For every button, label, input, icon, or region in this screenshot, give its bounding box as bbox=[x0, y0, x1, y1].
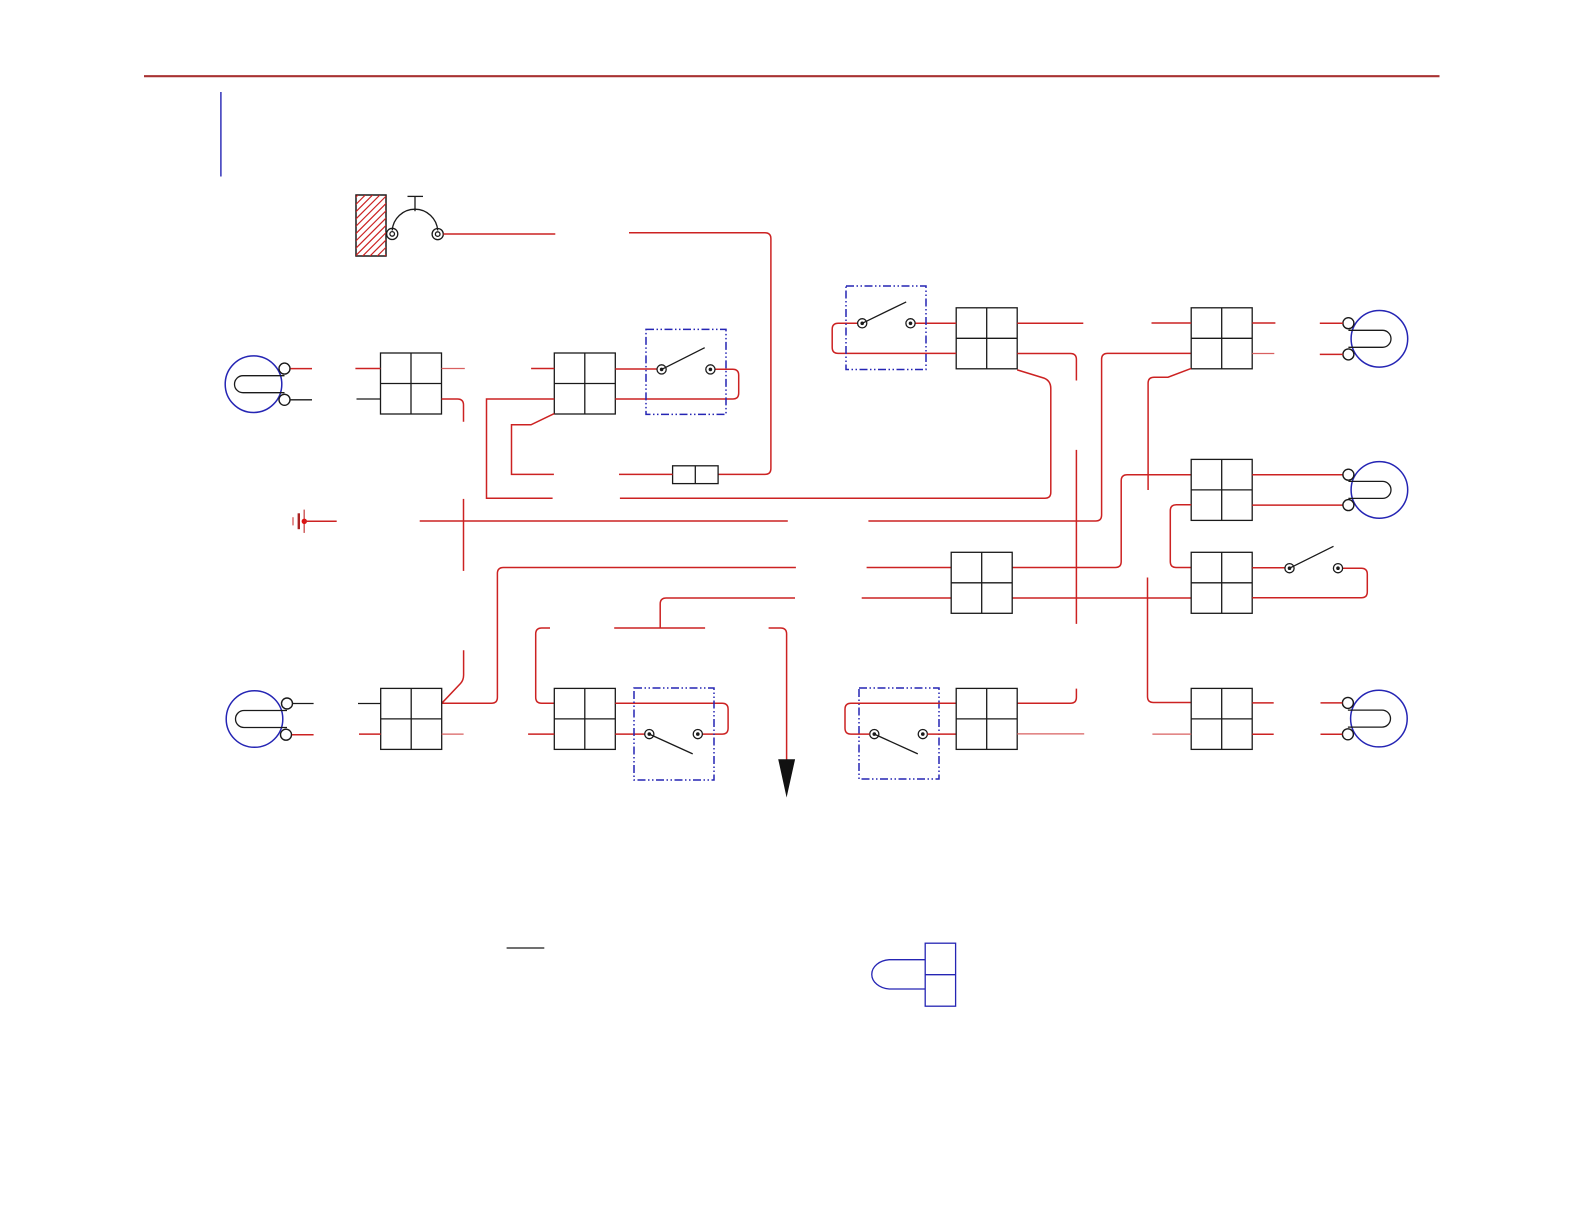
wire: K1 output stub bbox=[442, 368, 465, 370]
wire: S4 wrap loop to K3 lower pin bbox=[832, 323, 956, 353]
border tick (blue vertical line) bbox=[220, 92, 222, 177]
wire: bus D stub down to K9 bbox=[536, 628, 555, 703]
wire: K5 lower pin to K6 upper pin bbox=[1170, 505, 1191, 568]
wire: Kb2 lower-right stub bbox=[1017, 733, 1084, 735]
wire: K1 ground stub (black) bbox=[357, 398, 381, 400]
wire: horn output bbox=[443, 233, 555, 235]
wire: S3 wrap loop to Kb2 upper pin bbox=[845, 703, 956, 734]
wire: K8 lower-right stub bbox=[442, 733, 464, 735]
wire: K7 upper-right stub bbox=[1252, 702, 1274, 704]
relay K8 bbox=[381, 688, 442, 749]
wire: bus B mid segment bbox=[867, 567, 952, 569]
relay Kc (center) bbox=[951, 552, 1012, 613]
wire: K3 lower output corner down bbox=[1017, 354, 1076, 381]
wire: bus C right segment to K6 bbox=[1012, 597, 1191, 599]
wire: lamp E4 lower lead bbox=[292, 734, 314, 736]
wire: K8 upper-left stub (black) bbox=[358, 703, 381, 705]
switch S5 bbox=[1285, 546, 1343, 573]
wire: mid riser segment bbox=[1075, 450, 1077, 624]
wire: S3 to Kb2 lower pin bbox=[927, 733, 956, 735]
wire: K8 lower-left stub bbox=[359, 733, 381, 735]
wire: bus D to arrow bbox=[769, 628, 787, 760]
wire: S5 return loop to K6 bbox=[1252, 568, 1367, 598]
wire: K8 riser diagonal bbox=[442, 650, 464, 703]
wire: K4 lower output stub bbox=[1252, 353, 1274, 355]
wire: riser to battery bus bbox=[463, 499, 465, 571]
wire: K9 upper loop to S2 bbox=[615, 703, 728, 734]
horn H1 bbox=[387, 196, 444, 239]
wire: main bus B left (to K8) bbox=[442, 568, 796, 704]
wire: K4 coil stub bbox=[1152, 322, 1192, 324]
wire: horn feed from fuse (corner loop) bbox=[629, 233, 771, 475]
wire: K2 lower-left branch bbox=[487, 399, 555, 498]
wire: K6 to switch S5 bbox=[1252, 567, 1285, 569]
relay K7 bbox=[1191, 688, 1252, 749]
wire: K3 upper output stub bbox=[1017, 322, 1083, 324]
wire: bus B right segment to K5 bbox=[1012, 475, 1191, 568]
wire: lamp E2 upper stub bbox=[1320, 322, 1343, 324]
wire: K1 coil feed stub bbox=[355, 368, 380, 370]
wire: K5 to lamp E3 lower bbox=[1252, 504, 1343, 506]
wire: lamp E5 lower stub bbox=[1321, 733, 1343, 735]
wire: riser to Kb2 bbox=[1017, 689, 1076, 704]
wire: bus C mid segment bbox=[862, 597, 952, 599]
lamp E3 bbox=[1343, 462, 1408, 519]
wire: bus C left segment with riser bbox=[660, 598, 795, 628]
battery G1 bbox=[293, 510, 337, 533]
indicator lamp E6 bbox=[872, 943, 956, 1006]
lamp E2 bbox=[1343, 311, 1408, 368]
lamp E1 bbox=[225, 356, 290, 413]
wire: battery bus left segment bbox=[420, 520, 788, 522]
ground reference line (black) bbox=[507, 947, 545, 949]
wire: K9 lower-left stub bbox=[528, 733, 554, 735]
wire: K2 corner diagonal branch bbox=[512, 414, 555, 475]
wire: lamp E4 upper lead (black) bbox=[293, 703, 314, 705]
wire: K7 lower-left stub bbox=[1152, 733, 1191, 735]
wire: K1 lower output with corner down bbox=[442, 399, 464, 422]
wire: bus E segment (fuse branch) bbox=[620, 370, 1051, 498]
relay K6 bbox=[1191, 552, 1252, 613]
wire: battery bus right segment to K4 bbox=[868, 353, 1191, 521]
wire: lamp E1 ground lead (black) bbox=[291, 399, 313, 401]
fuse F1 bbox=[673, 466, 719, 484]
wire: K9 to S2 contact bbox=[615, 733, 644, 735]
relay K2 bbox=[554, 353, 615, 414]
wire: riser to K7 bbox=[1148, 578, 1192, 703]
wire: lamp E1 positive lead bbox=[291, 368, 313, 370]
wire: bus D mid segment bbox=[614, 627, 705, 629]
wire: K4 corner drop bbox=[1148, 368, 1191, 490]
lamp E4 bbox=[226, 691, 292, 748]
switch S3 bbox=[859, 688, 939, 779]
wire: S4 to K3 coil bbox=[915, 322, 956, 324]
relay K4 bbox=[1191, 308, 1252, 369]
relay K5 bbox=[1191, 459, 1252, 520]
relay Kb2 (bottom center) bbox=[956, 688, 1017, 749]
title rule bbox=[144, 75, 1440, 77]
wire: lamp E5 upper stub bbox=[1321, 702, 1343, 704]
horn mounting bracket (hatched) bbox=[297, 195, 446, 256]
wire: K7 lower-right stub bbox=[1252, 733, 1274, 735]
lamp E5 bbox=[1342, 690, 1407, 747]
off-page arrow bbox=[778, 759, 795, 797]
switch S1 bbox=[646, 329, 726, 414]
switch S4 bbox=[846, 286, 926, 370]
wire: K2 to switch S1 bbox=[615, 368, 657, 370]
relay K3 bbox=[956, 308, 1017, 369]
wire: K4 upper output stub bbox=[1252, 322, 1275, 324]
wire: S1 return loop to K2 bbox=[615, 369, 738, 399]
wire: K2 coil feed stub bbox=[531, 368, 554, 370]
wire: K5 to lamp E3 upper bbox=[1252, 474, 1343, 476]
relay K1 bbox=[381, 353, 442, 414]
relay K9 bbox=[554, 688, 615, 749]
wire: fuse left feed bbox=[619, 473, 673, 475]
wire: lamp E2 lower stub bbox=[1320, 353, 1343, 355]
switch S2 bbox=[634, 688, 714, 780]
